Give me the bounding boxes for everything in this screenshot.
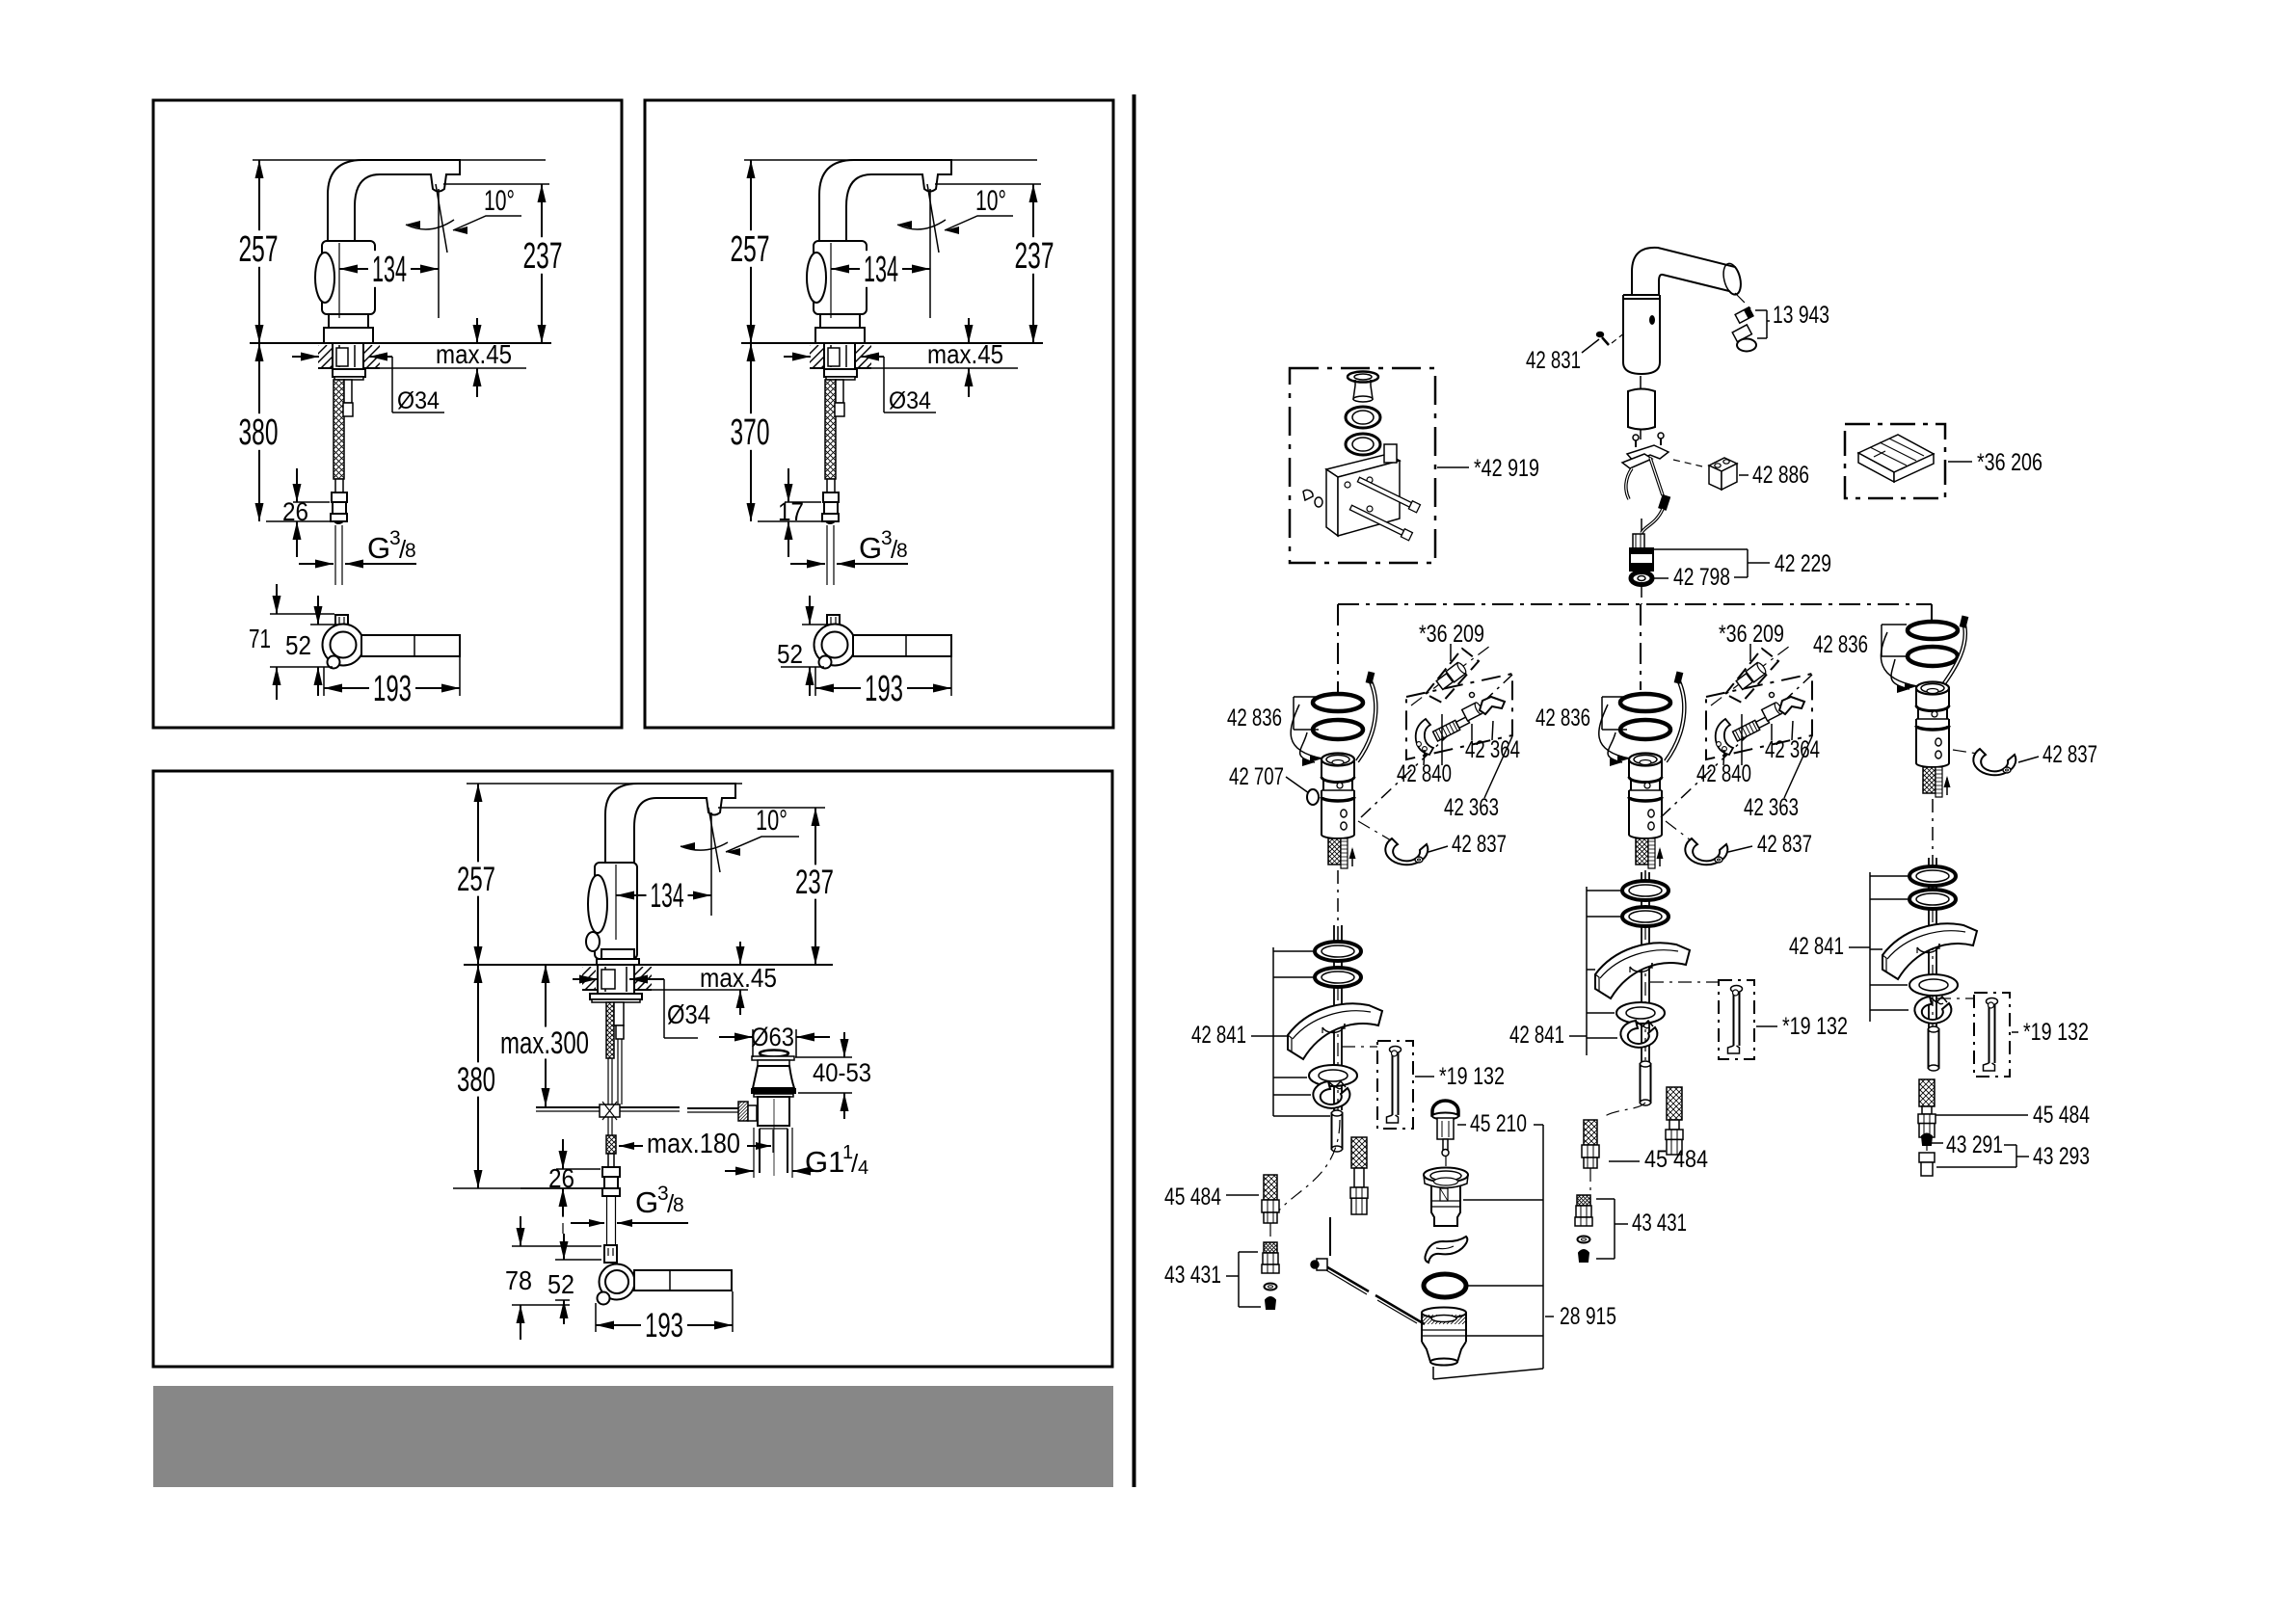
svg-text:max.45: max.45 (927, 339, 1003, 369)
svg-text:42 229: 42 229 (1775, 550, 1831, 577)
svg-text:237: 237 (523, 236, 563, 277)
svg-text:4: 4 (858, 1157, 868, 1179)
svg-text:max.45: max.45 (700, 963, 777, 993)
svg-text:43 293: 43 293 (2033, 1143, 2090, 1170)
svg-text:10°: 10° (975, 185, 1006, 217)
svg-text:42 363: 42 363 (1744, 794, 1799, 821)
svg-text:45 210: 45 210 (1470, 1110, 1527, 1137)
svg-text:*19 132: *19 132 (1782, 1013, 1848, 1040)
svg-text:40-53: 40-53 (813, 1058, 871, 1087)
svg-text:42 836: 42 836 (1535, 705, 1590, 732)
svg-text:42 841: 42 841 (1789, 933, 1844, 960)
svg-text:43 431: 43 431 (1632, 1210, 1687, 1237)
svg-text:Ø34: Ø34 (667, 999, 710, 1029)
svg-text:134: 134 (864, 250, 898, 290)
svg-text:45 484: 45 484 (1644, 1146, 1708, 1173)
svg-text:42 363: 42 363 (1444, 794, 1499, 821)
svg-text:237: 237 (1015, 236, 1055, 277)
svg-text:52: 52 (285, 630, 311, 660)
svg-text:max.300: max.300 (500, 1025, 589, 1060)
svg-text:193: 193 (865, 669, 903, 709)
svg-text:52: 52 (547, 1269, 574, 1299)
svg-text:*36 209: *36 209 (1719, 621, 1784, 648)
svg-text:134: 134 (651, 877, 684, 915)
svg-text:42 831: 42 831 (1526, 347, 1581, 374)
svg-text:42 837: 42 837 (1757, 831, 1812, 858)
svg-text:13 943: 13 943 (1773, 302, 1829, 329)
svg-text:134: 134 (372, 250, 407, 290)
svg-text:193: 193 (645, 1307, 683, 1344)
svg-text:42 798: 42 798 (1673, 564, 1730, 591)
svg-text:43 431: 43 431 (1164, 1262, 1221, 1289)
svg-text:42 836: 42 836 (1227, 705, 1282, 732)
svg-text:380: 380 (239, 412, 279, 453)
svg-text:26: 26 (282, 497, 308, 526)
svg-text:*36 209: *36 209 (1419, 621, 1484, 648)
svg-text:Ø63: Ø63 (751, 1023, 794, 1051)
svg-text:17: 17 (778, 497, 804, 526)
svg-text:42 364: 42 364 (1465, 736, 1520, 763)
svg-text:45 484: 45 484 (1164, 1184, 1221, 1211)
svg-text:257: 257 (457, 861, 495, 898)
svg-text:42 841: 42 841 (1191, 1022, 1246, 1049)
svg-text:370: 370 (731, 412, 770, 453)
svg-text:43 291: 43 291 (1946, 1131, 2003, 1158)
svg-text:380: 380 (457, 1061, 495, 1099)
svg-text:8: 8 (405, 540, 416, 562)
svg-text:42 836: 42 836 (1813, 631, 1868, 658)
svg-text:78: 78 (505, 1265, 532, 1295)
svg-text:G: G (859, 531, 882, 565)
svg-text:26: 26 (548, 1163, 574, 1193)
svg-text:10°: 10° (484, 185, 515, 217)
svg-text:10°: 10° (756, 805, 788, 837)
svg-text:8: 8 (896, 540, 908, 562)
svg-text:193: 193 (373, 669, 412, 709)
svg-text:71: 71 (249, 624, 271, 653)
svg-text:*19 132: *19 132 (2023, 1019, 2089, 1046)
svg-text:42 837: 42 837 (2042, 741, 2097, 768)
svg-text:*36 206: *36 206 (1977, 449, 2042, 476)
svg-text:42 841: 42 841 (1509, 1022, 1564, 1049)
svg-text:*19 132: *19 132 (1439, 1063, 1505, 1090)
svg-text:42 364: 42 364 (1765, 736, 1820, 763)
svg-text:42 707: 42 707 (1229, 763, 1284, 790)
svg-text:42 837: 42 837 (1452, 831, 1507, 858)
svg-text:G: G (367, 531, 390, 565)
svg-text:max.45: max.45 (436, 339, 512, 369)
svg-text:max.180: max.180 (647, 1129, 740, 1159)
svg-text:28 915: 28 915 (1560, 1303, 1616, 1330)
svg-text:52: 52 (777, 639, 803, 669)
svg-text:Ø34: Ø34 (889, 387, 931, 414)
svg-text:G: G (635, 1185, 658, 1219)
svg-text:8: 8 (673, 1194, 684, 1216)
svg-text:G1: G1 (805, 1145, 844, 1179)
svg-text:*42 919: *42 919 (1474, 455, 1539, 482)
svg-text:237: 237 (795, 864, 834, 901)
svg-text:Ø34: Ø34 (397, 387, 440, 414)
svg-text:45 484: 45 484 (2033, 1102, 2090, 1129)
svg-text:257: 257 (731, 229, 770, 270)
svg-text:42 886: 42 886 (1752, 462, 1809, 489)
svg-text:257: 257 (239, 229, 279, 270)
